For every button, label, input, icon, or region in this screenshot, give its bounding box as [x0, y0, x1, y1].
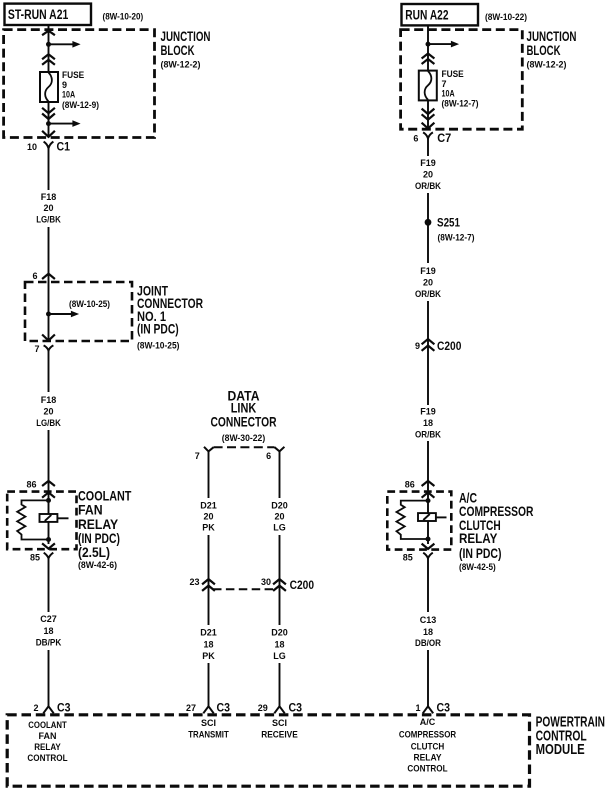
splice S251 dot: [425, 219, 432, 226]
svg-text:C7: C7: [437, 131, 451, 145]
splice dot at junction block left top: [46, 42, 51, 47]
wire C1 down: [48, 148, 50, 190]
connector chevron inside A/C relay bottom: [422, 544, 435, 549]
branch arrow at junction block left bottom: [49, 123, 74, 125]
connector C200 chevrons pin 9: [422, 339, 435, 344]
wire fuse 7 to junction block exit: [427, 100, 429, 129]
svg-text:OR/BK: OR/BK: [415, 429, 441, 439]
svg-text:29: 29: [258, 703, 268, 713]
wire to C200 pin 30: [279, 535, 281, 625]
svg-text:FUSE: FUSE: [442, 69, 464, 79]
connector arrow leaving junction block right: [422, 123, 435, 129]
svg-text:(8W-12-7): (8W-12-7): [442, 98, 479, 108]
svg-text:18: 18: [274, 639, 284, 649]
svg-text:6: 6: [32, 271, 37, 281]
svg-text:(8W-12-9): (8W-12-9): [62, 100, 99, 110]
svg-text:20: 20: [203, 511, 213, 521]
svg-text:BLOCK: BLOCK: [161, 42, 195, 58]
svg-text:C1: C1: [57, 140, 71, 154]
svg-text:TRANSMIT: TRANSMIT: [188, 729, 229, 739]
connector fork below joint connector pin 7: [44, 345, 54, 350]
node ST-RUN A21 box: [5, 4, 92, 25]
svg-text:CONNECTOR: CONNECTOR: [211, 413, 277, 429]
splice dot relay top: [46, 498, 51, 503]
svg-text:C3: C3: [217, 700, 231, 714]
wire label F18 20 LG/BK (lower): [36, 395, 61, 428]
connector chevron inside A/C relay top: [422, 492, 435, 497]
svg-text:FAN: FAN: [39, 731, 57, 741]
svg-text:CLUTCH: CLUTCH: [411, 742, 445, 752]
wire to C200 pin 9: [427, 301, 429, 405]
wire label F19 18 OR/BK: [415, 406, 441, 439]
data link connector pin 6 fork: [275, 447, 285, 452]
splice dot at junction block left bottom: [46, 121, 51, 126]
svg-text:RECEIVE: RECEIVE: [261, 729, 298, 739]
svg-text:20: 20: [423, 278, 433, 288]
svg-text:6: 6: [266, 451, 271, 461]
wire C7 down: [427, 138, 429, 156]
svg-text:23: 23: [189, 577, 199, 587]
wire through A/C relay: [427, 492, 429, 544]
splice dot A/C relay top: [426, 498, 431, 503]
svg-text:C200: C200: [290, 578, 315, 592]
junction block left dashed box: [4, 30, 155, 138]
branch arrow at junction block right top: [428, 43, 452, 45]
connector C3 pin 29 legs: [274, 706, 284, 713]
svg-text:PK: PK: [202, 651, 215, 661]
svg-text:2: 2: [33, 703, 38, 713]
svg-text:F19: F19: [420, 158, 436, 168]
svg-text:BLOCK: BLOCK: [527, 42, 561, 58]
fuse 7 label: [442, 69, 479, 108]
svg-text:85: 85: [30, 553, 40, 563]
svg-text:C200: C200: [437, 339, 462, 353]
svg-text:SCI: SCI: [201, 718, 216, 728]
wire joint connector to coolant fan relay: [48, 350, 50, 392]
svg-text:D20: D20: [271, 628, 288, 638]
svg-text:6: 6: [413, 133, 418, 143]
connector chevron inside relay bottom: [42, 543, 55, 548]
svg-text:(8W-42-6): (8W-42-6): [78, 560, 117, 570]
wire label D21 18 PK: [200, 628, 217, 662]
svg-text:ST-RUN A21: ST-RUN A21: [8, 7, 69, 22]
splice dot relay bottom: [46, 537, 51, 542]
PCM pin label A/C COMPRESSOR CLUTCH RELAY CONTROL: [399, 717, 457, 774]
svg-text:D20: D20: [271, 501, 288, 511]
svg-text:LG: LG: [273, 651, 286, 661]
svg-text:18: 18: [423, 418, 433, 428]
svg-text:(2.5L): (2.5L): [78, 544, 110, 560]
powertrain control module dashed box: [7, 715, 529, 786]
wire to PCM pin 29: [279, 663, 281, 707]
svg-text:9: 9: [415, 341, 420, 351]
connector fork below A/C relay pin 85: [423, 553, 433, 559]
powertrain control module label: [536, 714, 605, 759]
A/C relay coil stub: [436, 516, 447, 518]
svg-text:86: 86: [405, 480, 415, 490]
fuse 9 label: [62, 70, 99, 110]
svg-text:F18: F18: [41, 395, 57, 405]
wire DLC pin 7 down: [208, 451, 210, 498]
svg-text:1: 1: [415, 703, 420, 713]
connector C7 fork: [423, 132, 433, 138]
wire down to relay: [48, 430, 50, 492]
svg-text:S251: S251: [437, 216, 460, 230]
svg-text:30: 30: [261, 577, 271, 587]
svg-text:F19: F19: [420, 406, 436, 416]
svg-text:(8W-12-2): (8W-12-2): [161, 59, 201, 70]
wire relay to PCM: [48, 558, 50, 612]
A/C relay coil resistor zigzag: [397, 501, 429, 539]
svg-text:COOLANT: COOLANT: [28, 720, 67, 730]
svg-text:20: 20: [43, 203, 53, 213]
connector chevron at pin 86: [422, 481, 435, 486]
connector C200 dashed bridge: [213, 588, 274, 590]
connector C200 chevrons pin 23: [202, 579, 215, 584]
relay coil resistor zigzag: [17, 500, 48, 539]
wire label C13 18 DB/OR: [415, 615, 441, 648]
svg-text:86: 86: [26, 480, 36, 490]
in-line connector double chevron below fuse 9: [42, 108, 55, 113]
svg-text:20: 20: [43, 407, 53, 417]
svg-text:C3: C3: [289, 700, 303, 714]
svg-text:85: 85: [403, 553, 413, 563]
connector chevron entering joint connector: [42, 274, 55, 279]
svg-text:F18: F18: [41, 192, 57, 202]
svg-text:20: 20: [274, 511, 284, 521]
svg-text:RELAY: RELAY: [459, 530, 498, 546]
svg-text:(IN PDC): (IN PDC): [137, 320, 179, 336]
connector chevron leaving joint connector: [42, 335, 55, 341]
wire label C27 18 DB/PK: [36, 614, 62, 648]
connector C3 pin 1 legs: [423, 706, 433, 713]
wire label F19 20 OR/BK (middle): [415, 266, 441, 299]
svg-text:D21: D21: [200, 501, 217, 511]
branch arrow in joint connector: [49, 313, 72, 315]
svg-text:RELAY: RELAY: [414, 753, 442, 763]
svg-text:7: 7: [195, 451, 200, 461]
svg-text:C3: C3: [437, 700, 451, 714]
joint connector label: [137, 282, 203, 350]
wire A/C relay to PCM: [427, 558, 429, 612]
coolant fan relay label: [78, 488, 132, 571]
svg-text:(8W-10-25): (8W-10-25): [137, 340, 180, 350]
wire to C200 pin 23: [208, 535, 210, 625]
connector C200 chevrons pin 30: [273, 579, 286, 584]
svg-text:(8W-10-20): (8W-10-20): [103, 12, 144, 23]
svg-text:27: 27: [186, 703, 196, 713]
data link connector dashed bridge: [214, 446, 275, 448]
splice dot A/C relay bottom: [426, 537, 431, 542]
fuse 7 symbol: [419, 71, 437, 101]
wire label F19 20 OR/BK (upper): [415, 158, 441, 191]
connector chevron inside relay top: [42, 492, 55, 497]
svg-text:FUSE: FUSE: [62, 70, 84, 80]
A/C compressor clutch relay dashed box: [387, 492, 451, 550]
svg-text:(8W-10-22): (8W-10-22): [485, 12, 527, 23]
svg-text:C13: C13: [420, 615, 437, 625]
svg-text:DB/OR: DB/OR: [415, 638, 441, 648]
wire fuse 9 to junction block exit: [48, 102, 50, 138]
fuse 9 symbol: [40, 72, 58, 102]
in-line connector double chevron above fuse 7: [422, 54, 435, 59]
svg-text:F19: F19: [420, 266, 436, 276]
relay coil stub: [57, 517, 68, 519]
PCM pin label SCI RECEIVE: [261, 718, 298, 739]
svg-text:CONTROL: CONTROL: [407, 764, 448, 774]
svg-text:COMPRESSOR: COMPRESSOR: [399, 729, 457, 739]
PCM pin label COOLANT FAN RELAY CONTROL: [27, 720, 68, 763]
svg-text:(8W-42-5): (8W-42-5): [459, 562, 496, 572]
wire down to PCM pin 2: [48, 650, 50, 707]
wire down to PCM pin 1: [427, 650, 429, 707]
svg-text:18: 18: [43, 626, 53, 636]
wire to joint connector: [48, 227, 50, 282]
svg-text:OR/BK: OR/BK: [415, 181, 441, 191]
svg-text:(8W-12-2): (8W-12-2): [527, 59, 567, 70]
wire DLC pin 6 down: [279, 451, 281, 498]
svg-text:(8W-10-25): (8W-10-25): [69, 299, 110, 309]
wire to splice S251: [427, 193, 429, 263]
data link connector pin 7 fork: [204, 447, 214, 452]
A/C compressor clutch relay label: [459, 490, 533, 572]
svg-text:A/C: A/C: [420, 717, 436, 727]
connector arrow leaving junction block left: [42, 131, 55, 137]
svg-text:LG: LG: [273, 522, 286, 532]
wire label D20 20 LG: [271, 501, 288, 533]
wire to PCM pin 27: [208, 663, 210, 707]
svg-text:18: 18: [203, 639, 213, 649]
branch arrow at junction block left top: [49, 43, 74, 45]
svg-text:10: 10: [27, 142, 37, 152]
svg-text:MODULE: MODULE: [536, 741, 585, 758]
wire label F18 20 LG/BK (upper): [36, 192, 61, 225]
node RUN A22 box: [402, 4, 479, 25]
connector chevron entering junction block left: [42, 31, 55, 36]
svg-text:LG/BK: LG/BK: [36, 418, 61, 428]
svg-text:PK: PK: [202, 522, 215, 532]
svg-text:10A: 10A: [62, 89, 75, 99]
A/C relay coil box: [418, 513, 436, 521]
wire RUN A22 to fuse 7: [427, 25, 429, 70]
svg-text:C27: C27: [40, 614, 57, 624]
splice dot at junction block right top: [426, 42, 431, 47]
connector C3 pin 27 legs: [203, 706, 213, 713]
wire label D20 18 LG: [271, 628, 288, 662]
svg-text:C3: C3: [57, 700, 71, 714]
svg-text:OR/BK: OR/BK: [415, 289, 441, 299]
svg-text:18: 18: [423, 627, 433, 637]
svg-text:7: 7: [442, 79, 447, 89]
in-line connector double chevron below fuse 7: [422, 109, 435, 114]
svg-text:SCI: SCI: [272, 718, 287, 728]
wire label D21 20 PK: [200, 501, 217, 533]
data link connector label: [211, 387, 277, 444]
svg-text:DB/PK: DB/PK: [36, 638, 62, 648]
relay coil box: [40, 514, 58, 522]
wire through joint connector: [48, 282, 50, 341]
in-line connector double chevron above fuse 9: [42, 54, 55, 59]
splice dot in joint connector: [46, 312, 51, 317]
coolant fan relay dashed box: [7, 492, 76, 550]
connector chevron at pin 86: [42, 481, 55, 486]
svg-text:RUN A22: RUN A22: [405, 7, 448, 22]
connector C3 pin 2 legs: [43, 706, 53, 713]
svg-text:(8W-30-22): (8W-30-22): [222, 433, 265, 444]
wire ST-RUN A21 to fuse 9: [48, 25, 50, 72]
wire down to A/C relay: [427, 441, 429, 492]
svg-text:D21: D21: [200, 628, 217, 638]
svg-text:9: 9: [62, 80, 67, 90]
connector C1 fork: [44, 142, 54, 149]
svg-text:10A: 10A: [442, 89, 455, 99]
svg-text:7: 7: [34, 344, 39, 354]
wire through relay: [48, 492, 50, 544]
svg-text:RELAY: RELAY: [34, 742, 61, 752]
junction block left label: [161, 28, 211, 70]
junction block right label: [527, 28, 577, 70]
svg-text:(8W-12-7): (8W-12-7): [438, 232, 475, 242]
svg-text:(IN PDC): (IN PDC): [459, 545, 502, 561]
svg-text:20: 20: [423, 170, 433, 180]
junction block right dashed box: [401, 30, 523, 130]
joint connector no.1 dashed box: [25, 282, 132, 341]
svg-text:LG/BK: LG/BK: [36, 215, 61, 225]
PCM pin label SCI TRANSMIT: [188, 718, 229, 739]
connector fork below relay pin 85: [44, 553, 54, 559]
svg-text:CONTROL: CONTROL: [27, 753, 68, 763]
